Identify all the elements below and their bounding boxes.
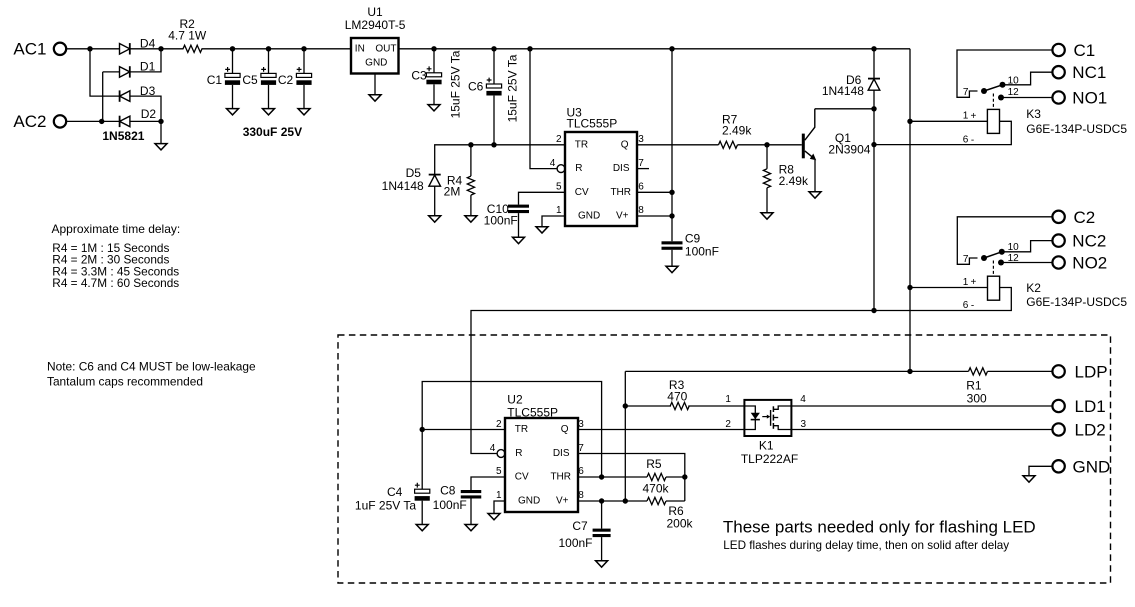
wire [90,49,120,96]
ground [465,216,477,222]
resistor R4 [444,145,475,199]
diode D6 [822,49,880,98]
svg-text:C8: C8 [440,484,456,498]
wire [601,537,603,561]
svg-text:R: R [575,163,582,174]
svg-text:1N4148: 1N4148 [822,84,864,98]
wire [578,500,647,502]
wire [232,85,234,109]
wire [1002,241,1053,252]
flashing LED enclosure [338,335,1111,583]
svg-text:TLC555P: TLC555P [507,405,558,419]
junction [599,498,604,503]
junction [682,474,687,479]
svg-text:4: 4 [800,394,806,405]
svg-text:1N5821: 1N5821 [102,129,144,143]
junction [301,46,306,51]
note tantalum [47,359,256,388]
wire [530,49,557,169]
svg-text:7: 7 [638,158,644,169]
wire [910,120,987,122]
pin 4 bubble U3 [557,165,565,173]
wire [433,84,435,104]
node AC2 [13,112,46,131]
svg-text:TLP222AF: TLP222AF [741,452,798,466]
svg-text:2: 2 [556,134,562,145]
svg-text:470: 470 [667,390,687,404]
pin 4 bubble U2 [497,450,505,458]
svg-text:G6E-134P-USDC5: G6E-134P-USDC5 [1026,122,1127,136]
label pin10 K2 [1008,242,1020,253]
capacitor C7 [558,519,610,550]
junction [158,46,163,51]
junction [669,190,674,195]
wire [873,90,875,310]
svg-text:10: 10 [1008,242,1020,253]
wire [435,145,565,175]
resistor R3 [667,378,689,409]
wire [102,72,104,122]
resistor R8 [763,145,809,188]
svg-text:1N4148: 1N4148 [382,179,424,193]
contact NO K3 [998,95,1004,101]
svg-text:CV: CV [575,187,589,198]
wire [421,501,423,525]
wire [637,191,672,193]
wire [957,217,1053,264]
svg-text:Q: Q [621,140,629,151]
svg-text:15uF 25V Ta: 15uF 25V Ta [505,54,519,122]
wire [374,74,376,95]
note flashing LED [723,518,1036,553]
junction [527,46,532,51]
svg-text:2: 2 [725,419,731,430]
svg-text:10: 10 [1008,76,1020,87]
label pin12 K3 [1008,87,1020,98]
svg-text:K1: K1 [759,438,774,452]
svg-text:NC1: NC1 [1072,63,1106,82]
svg-text:1: 1 [556,205,562,216]
svg-text:C2: C2 [1074,208,1096,227]
svg-text:7: 7 [578,443,584,454]
wire [666,476,685,478]
wire [130,96,161,121]
svg-text:3: 3 [578,419,584,430]
svg-text:U1: U1 [367,5,383,19]
junction [871,106,876,111]
capacitor C4 [355,430,430,513]
svg-text:1: 1 [963,111,969,122]
svg-text:100nF: 100nF [433,498,467,512]
ground [513,237,525,243]
ground [596,561,608,567]
wire [1029,466,1053,476]
svg-text:C4: C4 [387,485,403,499]
svg-text:2M: 2M [444,184,461,198]
terminal NO1 [1052,89,1107,108]
wire [130,49,161,72]
label pin1 K3 [963,111,977,122]
svg-text:TR: TR [515,424,528,435]
wire [268,85,270,109]
wire [542,216,565,227]
capacitor C8 [433,484,482,512]
svg-text:D4: D4 [140,37,156,51]
contact pivot K2 [981,255,987,261]
svg-text:4: 4 [550,158,556,169]
ground [428,105,440,111]
wire [66,120,120,122]
svg-text:4.7 1W: 4.7 1W [168,29,207,43]
svg-text:C1: C1 [207,73,223,87]
contact arm K3 [984,85,1003,91]
wire [688,405,744,407]
capacitor C3 [411,49,441,84]
svg-text:7: 7 [963,87,969,98]
svg-text:C2: C2 [278,73,294,87]
svg-text:100nF: 100nF [558,536,592,550]
wire [519,192,566,204]
label pin12 K2 [1008,253,1020,264]
wire [637,144,719,146]
svg-text:7: 7 [963,254,969,265]
wire [666,500,685,502]
ground [488,514,500,520]
wire [624,371,626,501]
svg-text:OUT: OUT [375,43,396,54]
wire [637,215,672,217]
terminal LDP [1052,362,1107,381]
wire [578,454,685,502]
svg-text:+: + [970,277,976,288]
svg-text:15uF 25V Ta: 15uF 25V Ta [449,50,463,118]
svg-text:2.49k: 2.49k [722,124,752,138]
timer U3 TLC555P [550,105,645,226]
svg-text:G6E-134P-USDC5: G6E-134P-USDC5 [1026,295,1127,309]
svg-text:IN: IN [355,43,365,54]
svg-text:1uF 25V Ta: 1uF 25V Ta [355,499,416,513]
wire [471,477,505,490]
terminal AC1 [54,43,66,55]
wire [738,144,802,146]
svg-text:R4 = 4.7M : 60 Seconds: R4 = 4.7M : 60 Seconds [52,276,179,290]
diode D3 [120,84,156,102]
svg-text:300: 300 [967,391,987,405]
capacitor C1 [207,49,240,87]
svg-text:LD1: LD1 [1075,397,1106,416]
ground [155,144,167,150]
svg-text:5: 5 [496,466,502,477]
junction [491,46,496,51]
svg-text:TR: TR [575,140,588,151]
wire [470,499,472,525]
label K3 part [1026,122,1127,136]
node AC1 [13,39,46,58]
resistor R2 [168,17,207,52]
wire [578,429,744,431]
ground [298,109,310,115]
relay link K3 [992,94,994,110]
regulator U1 [345,5,406,74]
wire [625,370,968,372]
svg-text:12: 12 [1008,253,1020,264]
terminal AC2 [54,115,66,127]
svg-text:NO2: NO2 [1072,254,1107,273]
contact pivot K3 [981,88,987,94]
svg-text:TLC555P: TLC555P [567,117,618,131]
relay coil K2 [988,276,1000,300]
svg-text:GND: GND [1073,457,1111,476]
junction [871,308,876,313]
svg-text:V+: V+ [616,211,629,222]
contact NC K2 [999,249,1005,255]
diode D1 [120,60,156,78]
svg-text:6: 6 [963,300,969,311]
junction [599,474,604,479]
svg-text:Approximate time delay:: Approximate time delay: [52,222,181,236]
junction [871,142,876,147]
wire [160,121,162,143]
svg-text:LM2940T-5: LM2940T-5 [345,18,406,32]
svg-text:R5: R5 [646,457,662,471]
junction [764,142,769,147]
wire [103,71,120,73]
relay coil K3 [987,109,999,133]
capacitor C9 [662,232,719,259]
svg-text:C3: C3 [411,68,427,82]
junction [623,498,628,503]
label K3 [1026,107,1041,121]
junction [491,142,496,147]
wire [766,188,768,213]
label pin1 K2 [963,277,977,288]
terminal NC2 [1052,232,1106,251]
svg-text:Q: Q [561,424,569,435]
svg-text:C5: C5 [242,73,258,87]
terminal C1 [1052,41,1095,60]
svg-text:3: 3 [638,134,644,145]
contact NC K3 [1000,82,1006,88]
svg-text:+: + [970,111,976,122]
wire [493,96,495,145]
capacitor C5 [242,49,276,87]
junction [468,142,473,147]
terminal C2 [1052,208,1095,227]
svg-text:Note: C6 and C4 MUST be low-le: Note: C6 and C4 MUST be low-leakage [47,359,256,373]
label 15uF 25V Ta [449,50,463,118]
wire [791,405,1052,407]
label 15uF 25V Ta [505,54,519,122]
transistor Q1 [802,109,871,192]
pin 7 stub U3 [637,168,649,170]
label K2 [1026,281,1041,295]
diode D2 [120,107,157,127]
svg-text:100nF: 100nF [484,214,518,228]
terminal LD1 [1052,397,1105,416]
wire [815,108,874,110]
svg-text:THR: THR [610,187,631,198]
svg-text:2: 2 [496,419,502,430]
terminal LD2 [1052,421,1105,440]
svg-text:1: 1 [963,277,969,288]
svg-text:AC2: AC2 [13,112,46,131]
wire [66,48,184,50]
svg-text:12: 12 [1008,87,1020,98]
junction [87,46,92,51]
ground [761,213,773,219]
svg-text:DIS: DIS [613,163,630,174]
wire [874,121,1011,144]
svg-text:K2: K2 [1026,281,1041,295]
svg-text:6: 6 [638,181,644,192]
svg-text:THR: THR [550,472,571,483]
ground [263,109,275,115]
wire [578,476,647,478]
wire [910,287,988,289]
ground [369,95,381,101]
wire [1001,262,1053,264]
capacitor C6 [468,49,502,96]
ground [1023,476,1035,482]
svg-text:K3: K3 [1026,107,1041,121]
wire [909,49,911,372]
wire [874,288,1011,311]
svg-text:1: 1 [496,490,502,501]
ground [809,192,821,198]
svg-text:GND: GND [365,58,387,69]
svg-text:These parts needed only for fl: These parts needed only for flashing LED [723,518,1036,537]
wire [791,429,1052,431]
svg-text:D5: D5 [406,166,422,180]
ground [227,109,239,115]
svg-text:GND: GND [578,211,600,222]
junction [871,46,876,51]
svg-text:200k: 200k [666,517,693,531]
note time delay [52,222,181,290]
svg-text:8: 8 [638,205,644,216]
junction [420,427,425,432]
svg-text:CV: CV [515,472,529,483]
svg-text:NC2: NC2 [1072,232,1106,251]
label 1N5821 [102,129,144,143]
junction [623,403,628,408]
svg-text:LD2: LD2 [1075,421,1106,440]
label pin7 K3 [963,87,969,98]
wire [494,501,505,514]
relay link K2 [992,261,994,277]
label pin7 K2 [963,254,969,265]
svg-text:NO1: NO1 [1072,89,1107,108]
svg-text:5: 5 [556,181,562,192]
svg-text:8: 8 [578,490,584,501]
wire [422,429,505,431]
svg-text:DIS: DIS [553,448,570,459]
junction [158,119,163,124]
ground [416,525,428,531]
wire [434,186,436,216]
svg-text:R: R [515,448,522,459]
svg-text:-: - [971,135,974,146]
wire [625,405,671,407]
wire [1001,97,1053,99]
svg-text:R1: R1 [966,378,982,392]
svg-text:2N3904: 2N3904 [828,143,870,157]
wire [518,213,520,237]
svg-text:6: 6 [578,466,584,477]
junction [907,285,912,290]
junction [266,46,271,51]
wire [303,85,305,109]
optocoupler K1 TLP222AF [725,394,806,466]
svg-text:6: 6 [963,134,969,145]
label pin10 K3 [1008,76,1020,87]
wire [671,250,673,266]
ground [429,216,441,222]
svg-text:C6: C6 [468,79,484,93]
svg-text:D2: D2 [141,107,157,121]
junction [907,119,912,124]
svg-text:AC1: AC1 [13,39,46,58]
svg-text:470k: 470k [642,481,669,495]
junction [431,46,436,51]
label pin6 K3 [963,134,975,146]
svg-text:LED flashes during delay time,: LED flashes during delay time, then on s… [723,539,1009,552]
label pin6 K2 [963,300,975,312]
label K2 part [1026,295,1127,309]
diode D5 [382,166,441,193]
junction [669,46,674,51]
timer U2 TLC555P [490,393,585,513]
resistor R6 [647,497,694,530]
terminal NO2 [1052,254,1107,273]
junction [230,46,235,51]
terminal NC1 [1052,63,1106,82]
wire [1003,72,1053,85]
wire [601,501,603,529]
terminal GND [1052,457,1110,476]
svg-text:C7: C7 [572,519,588,533]
junction [907,369,912,374]
svg-text:C1: C1 [1074,41,1096,60]
wire [130,120,161,122]
svg-text:2.49k: 2.49k [779,174,809,188]
resistor R7 [719,113,753,149]
wire [988,370,1053,372]
wire [471,311,874,454]
capacitor C2 [278,49,312,87]
svg-text:GND: GND [518,496,540,507]
ground [536,227,548,233]
wire [422,382,601,478]
svg-text:100nF: 100nF [685,245,719,259]
svg-text:Tantalum caps recommended: Tantalum caps recommended [47,375,203,389]
svg-text:1: 1 [725,394,731,405]
wire [202,48,352,50]
resistor R5 [642,457,669,495]
junction [99,119,104,124]
resistor R1 [966,368,987,406]
wire [671,49,673,242]
svg-text:V+: V+ [556,496,569,507]
label 330uF 25V [243,125,302,139]
wire [957,50,1053,97]
ground [465,525,477,531]
diode D4 [120,37,156,55]
ground [666,266,678,272]
contact arm K2 [984,252,1002,258]
svg-text:3: 3 [801,419,807,430]
svg-text:4: 4 [490,443,496,454]
